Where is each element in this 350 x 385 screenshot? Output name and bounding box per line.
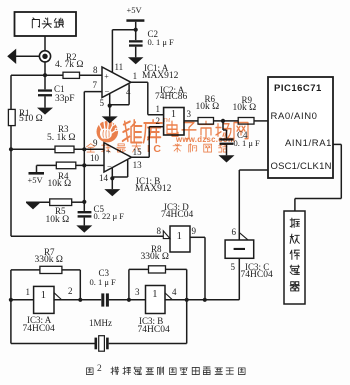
svg-text:www.dzsc.com: www.dzsc.com <box>175 135 235 144</box>
svg-text:IC: IC <box>147 143 165 155</box>
svg-text:TM: TM <box>163 118 170 124</box>
